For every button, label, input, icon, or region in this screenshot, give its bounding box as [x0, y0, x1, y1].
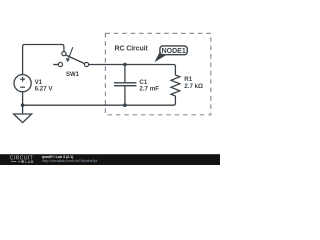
svg-text:LAB: LAB — [25, 159, 34, 164]
SW1 lever — [66, 55, 85, 64]
C1 top lead — [124, 65, 126, 83]
bottom return wire — [23, 104, 172, 106]
junction dot V1 / ground — [21, 103, 25, 107]
SW1 open throw terminal circle — [58, 62, 62, 66]
C1 bottom lead — [124, 86, 126, 105]
junction dot C1 bottom — [123, 103, 127, 107]
watermark bar — [0, 154, 220, 165]
capacitor C1 — [114, 65, 136, 106]
junction dot node top of C1 — [123, 63, 127, 67]
svg-text:2.7 mF: 2.7 mF — [139, 86, 159, 93]
resistor R1 — [171, 75, 180, 96]
voltage source V1 — [14, 75, 31, 106]
R1 bottom lead — [171, 96, 175, 105]
svg-text:6.27 V: 6.27 V — [35, 86, 54, 93]
ground — [14, 105, 32, 122]
SW1 actuation arrow — [69, 47, 73, 58]
SW1 throw terminal circle (top, connected) — [62, 52, 66, 56]
switch SW1 — [53, 47, 88, 66]
svg-text:http://circuitlab.com/c/e7v6ca: http://circuitlab.com/c/e7v6cahtr5pl — [42, 159, 98, 163]
dashed subcircuit box "RC Circuit" — [105, 33, 210, 114]
svg-text:RC Circuit: RC Circuit — [115, 46, 149, 53]
svg-text:SW1: SW1 — [66, 72, 80, 78]
wire switch common to node / R1 top — [89, 65, 176, 76]
wire V1 top to switch SW1 — [23, 45, 64, 75]
C1 top plate — [114, 82, 136, 84]
V1 minus sign — [20, 86, 25, 88]
C1 bottom plate — [114, 85, 136, 87]
SW1 common terminal circle (right) — [84, 62, 88, 66]
svg-text:2.7 kΩ: 2.7 kΩ — [184, 83, 203, 90]
V1 plus sign — [20, 78, 25, 80]
SW1 open throw stub wire — [53, 64, 58, 66]
V1 bottom lead — [22, 92, 24, 105]
node label NODE1 callout — [154, 46, 187, 62]
svg-text:NODE1: NODE1 — [162, 48, 186, 55]
